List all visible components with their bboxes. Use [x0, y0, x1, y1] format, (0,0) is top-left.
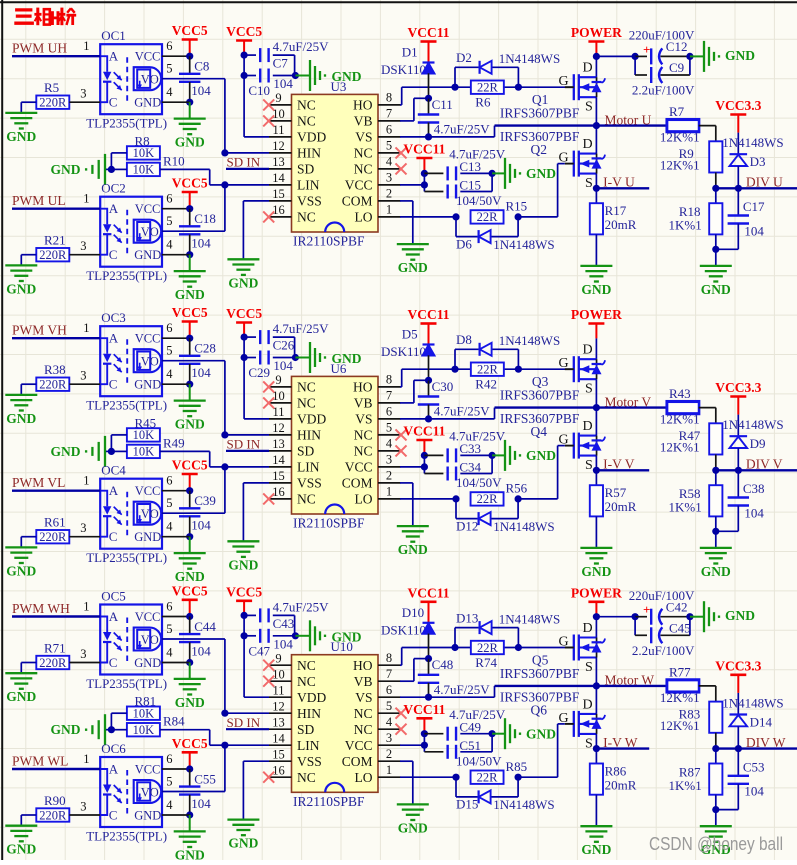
- svg-text:14: 14: [272, 731, 285, 745]
- svg-text:R17: R17: [605, 203, 627, 218]
- svg-text:104: 104: [744, 784, 764, 799]
- svg-text:4: 4: [386, 437, 393, 451]
- svg-text:POWER: POWER: [571, 25, 622, 40]
- svg-text:GND: GND: [526, 166, 556, 181]
- svg-text:13: 13: [272, 715, 285, 729]
- svg-text:GND: GND: [6, 281, 36, 296]
- svg-text:VCC11: VCC11: [403, 702, 445, 717]
- svg-text:1N4148WS: 1N4148WS: [722, 135, 783, 150]
- svg-text:4.7uF/25V: 4.7uF/25V: [434, 682, 491, 697]
- svg-text:R45: R45: [135, 415, 157, 430]
- svg-text:4: 4: [166, 798, 173, 812]
- svg-text:VO: VO: [141, 507, 159, 521]
- svg-text:GND: GND: [6, 411, 36, 426]
- svg-text:6: 6: [166, 752, 172, 766]
- svg-text:2.2uF/100V: 2.2uF/100V: [632, 643, 695, 658]
- svg-text:C43: C43: [273, 616, 295, 631]
- svg-text:VCC5: VCC5: [226, 306, 262, 321]
- svg-text:OC3: OC3: [101, 310, 126, 325]
- svg-text:LO: LO: [355, 492, 373, 507]
- svg-text:4: 4: [166, 85, 173, 99]
- svg-text:20mR: 20mR: [605, 777, 637, 792]
- svg-text:NC: NC: [297, 674, 316, 689]
- svg-text:12: 12: [272, 699, 285, 713]
- svg-text:10K: 10K: [133, 723, 155, 737]
- svg-text:6: 6: [166, 192, 172, 206]
- svg-text:10K: 10K: [133, 445, 155, 459]
- svg-text:D: D: [583, 343, 593, 358]
- svg-text:12K%1: 12K%1: [660, 440, 700, 455]
- svg-text:VO: VO: [141, 225, 159, 239]
- svg-text:HO: HO: [353, 380, 373, 395]
- svg-text:22R: 22R: [477, 492, 499, 506]
- svg-text:NC: NC: [297, 658, 316, 673]
- svg-text:D: D: [583, 61, 593, 76]
- svg-text:VCC: VCC: [135, 484, 161, 498]
- svg-text:GND: GND: [398, 260, 428, 275]
- svg-text:I-V V: I-V V: [603, 457, 635, 472]
- svg-text:D: D: [583, 621, 593, 636]
- svg-text:VCC: VCC: [345, 178, 373, 193]
- svg-text:G: G: [559, 356, 569, 371]
- svg-text:VO: VO: [141, 73, 159, 87]
- svg-text:Motor W: Motor W: [605, 673, 655, 688]
- svg-text:SD: SD: [297, 162, 315, 177]
- svg-text:R81: R81: [135, 694, 157, 709]
- svg-text:R77: R77: [669, 664, 691, 679]
- svg-text:5: 5: [386, 699, 392, 713]
- svg-text:1: 1: [386, 203, 392, 217]
- svg-text:C12: C12: [666, 39, 688, 54]
- svg-text:NC: NC: [354, 722, 373, 737]
- svg-text:VSS: VSS: [297, 754, 322, 769]
- svg-text:VCC11: VCC11: [407, 307, 449, 322]
- svg-text:R6: R6: [475, 95, 491, 110]
- svg-text:VCC5: VCC5: [172, 305, 208, 320]
- svg-text:6: 6: [166, 474, 172, 488]
- svg-text:GND: GND: [51, 722, 81, 737]
- svg-text:C: C: [109, 377, 118, 392]
- svg-text:C: C: [109, 529, 118, 544]
- svg-text:VS: VS: [355, 412, 372, 427]
- svg-text:VB: VB: [354, 114, 373, 129]
- svg-text:104: 104: [191, 365, 211, 380]
- svg-text:7: 7: [386, 107, 392, 121]
- svg-text:VCC5: VCC5: [226, 584, 262, 599]
- svg-text:6: 6: [386, 683, 392, 697]
- svg-text:4.7uF/25V: 4.7uF/25V: [273, 39, 330, 54]
- svg-text:2: 2: [386, 747, 392, 761]
- svg-text:C: C: [109, 808, 118, 823]
- svg-text:C55: C55: [194, 771, 216, 786]
- svg-text:1: 1: [83, 321, 89, 335]
- svg-text:4: 4: [166, 367, 173, 381]
- svg-text:GND: GND: [134, 808, 161, 822]
- svg-text:220R: 220R: [39, 248, 67, 262]
- svg-text:12K%1: 12K%1: [660, 718, 700, 733]
- svg-text:IR2110SPBF: IR2110SPBF: [293, 794, 365, 809]
- svg-text:5: 5: [166, 775, 172, 789]
- svg-text:DSK110: DSK110: [381, 622, 426, 637]
- svg-text:HO: HO: [353, 658, 373, 673]
- svg-text:12K%1: 12K%1: [660, 412, 700, 427]
- svg-text:104: 104: [273, 358, 293, 373]
- svg-text:Q2: Q2: [531, 142, 548, 157]
- svg-text:14: 14: [272, 171, 285, 185]
- svg-text:PWM VH: PWM VH: [12, 323, 67, 338]
- svg-text:104/50V: 104/50V: [456, 475, 502, 490]
- svg-text:VB: VB: [354, 396, 373, 411]
- svg-text:NC: NC: [297, 210, 316, 225]
- svg-text:3: 3: [80, 800, 86, 814]
- svg-text:C15: C15: [459, 178, 481, 193]
- svg-text:D15: D15: [456, 797, 478, 812]
- svg-text:+: +: [643, 602, 650, 617]
- svg-text:C44: C44: [194, 619, 216, 634]
- svg-text:D: D: [583, 697, 593, 712]
- svg-text:COM: COM: [342, 476, 373, 491]
- svg-text:IRFS3607PBF: IRFS3607PBF: [500, 129, 580, 144]
- svg-text:C28: C28: [194, 341, 216, 356]
- svg-text:6: 6: [386, 123, 392, 137]
- svg-text:VCC5: VCC5: [226, 24, 262, 39]
- svg-text:LO: LO: [355, 770, 373, 785]
- svg-text:VCC3.3: VCC3.3: [715, 98, 761, 113]
- svg-text:5: 5: [386, 139, 392, 153]
- svg-text:VCC5: VCC5: [172, 23, 208, 38]
- svg-text:VDD: VDD: [297, 130, 326, 145]
- svg-text:NC: NC: [297, 98, 316, 113]
- svg-text:C39: C39: [194, 493, 216, 508]
- svg-text:GND: GND: [701, 282, 731, 297]
- svg-text:CSDN @honey ball: CSDN @honey ball: [649, 834, 783, 854]
- svg-text:20mR: 20mR: [605, 217, 637, 232]
- svg-text:1N4148WS: 1N4148WS: [499, 611, 560, 626]
- svg-text:220R: 220R: [39, 530, 67, 544]
- svg-text:A: A: [109, 201, 119, 216]
- svg-text:A: A: [109, 762, 119, 777]
- svg-text:IR2110SPBF: IR2110SPBF: [293, 516, 365, 531]
- svg-text:G: G: [559, 74, 569, 89]
- svg-text:GND: GND: [6, 842, 36, 857]
- svg-text:Q6: Q6: [531, 702, 548, 717]
- svg-text:4: 4: [386, 155, 393, 169]
- svg-text:DSK110: DSK110: [381, 62, 426, 77]
- svg-text:GND: GND: [228, 275, 258, 290]
- svg-text:+: +: [643, 42, 650, 57]
- svg-text:GND: GND: [398, 820, 428, 835]
- svg-text:IR2110SPBF: IR2110SPBF: [293, 234, 365, 249]
- svg-text:S: S: [585, 176, 593, 191]
- svg-text:104: 104: [744, 223, 764, 238]
- svg-text:20mR: 20mR: [605, 499, 637, 514]
- svg-text:13: 13: [272, 155, 285, 169]
- svg-text:220R: 220R: [39, 808, 67, 822]
- svg-text:Motor V: Motor V: [605, 394, 652, 409]
- svg-text:4: 4: [166, 520, 173, 534]
- svg-text:IRFS3607PBF: IRFS3607PBF: [500, 388, 580, 403]
- svg-text:C53: C53: [743, 759, 765, 774]
- svg-text:GND: GND: [175, 135, 205, 150]
- svg-text:VCC5: VCC5: [172, 736, 208, 751]
- svg-text:D6: D6: [456, 236, 472, 251]
- svg-text:OC6: OC6: [101, 741, 126, 756]
- svg-text:D10: D10: [402, 605, 424, 620]
- svg-text:SD IN: SD IN: [227, 437, 261, 452]
- svg-text:VCC11: VCC11: [403, 424, 445, 439]
- svg-text:C7: C7: [273, 56, 289, 71]
- svg-text:C33: C33: [459, 441, 481, 456]
- svg-text:POWER: POWER: [571, 307, 622, 322]
- svg-text:GND: GND: [134, 378, 161, 392]
- svg-text:D5: D5: [402, 327, 418, 342]
- svg-text:C42: C42: [666, 599, 688, 614]
- svg-text:C34: C34: [459, 460, 481, 475]
- svg-text:6: 6: [166, 321, 172, 335]
- svg-text:104: 104: [191, 643, 211, 658]
- svg-text:22R: 22R: [477, 81, 499, 95]
- svg-text:Motor U: Motor U: [605, 112, 652, 127]
- svg-text:A: A: [109, 609, 119, 624]
- svg-text:R8: R8: [135, 133, 150, 148]
- svg-text:NC: NC: [354, 146, 373, 161]
- svg-text:7: 7: [386, 389, 392, 403]
- svg-text:SD: SD: [297, 444, 315, 459]
- svg-text:GND: GND: [134, 248, 161, 262]
- svg-text:D3: D3: [750, 154, 766, 169]
- svg-text:TLP2355(TPL): TLP2355(TPL): [86, 398, 167, 413]
- svg-text:104: 104: [191, 796, 211, 811]
- svg-text:IRFS3607PBF: IRFS3607PBF: [500, 411, 580, 426]
- svg-text:4: 4: [386, 715, 393, 729]
- svg-text:PWM WH: PWM WH: [12, 601, 70, 616]
- svg-text:VCC5: VCC5: [172, 458, 208, 473]
- svg-text:PWM UL: PWM UL: [12, 193, 66, 208]
- svg-text:VCC3.3: VCC3.3: [715, 658, 761, 673]
- svg-text:R84: R84: [163, 714, 185, 729]
- svg-text:VCC: VCC: [135, 762, 161, 776]
- svg-text:OC1: OC1: [101, 28, 126, 43]
- svg-text:COM: COM: [342, 754, 373, 769]
- svg-text:3: 3: [80, 239, 86, 253]
- svg-text:1K%1: 1K%1: [669, 778, 702, 793]
- svg-text:VCC: VCC: [135, 610, 161, 624]
- svg-text:D8: D8: [456, 332, 472, 347]
- svg-text:3: 3: [80, 369, 86, 383]
- svg-text:S: S: [585, 660, 593, 675]
- svg-text:TLP2355(TPL): TLP2355(TPL): [86, 829, 167, 844]
- svg-text:22R: 22R: [477, 641, 499, 655]
- svg-text:GND: GND: [134, 530, 161, 544]
- svg-text:1: 1: [83, 192, 89, 206]
- svg-text:LIN: LIN: [297, 738, 320, 753]
- svg-text:R57: R57: [605, 485, 627, 500]
- svg-text:R43: R43: [669, 386, 691, 401]
- svg-text:R42: R42: [475, 377, 497, 392]
- svg-text:1N4148WS: 1N4148WS: [722, 417, 783, 432]
- svg-text:C38: C38: [743, 481, 765, 496]
- svg-text:4.7uF/25V: 4.7uF/25V: [434, 404, 491, 419]
- svg-text:R85: R85: [506, 759, 528, 774]
- svg-text:1N4148WS: 1N4148WS: [493, 519, 554, 534]
- svg-text:D12: D12: [456, 518, 478, 533]
- svg-text:S: S: [585, 382, 593, 397]
- svg-text:1: 1: [83, 474, 89, 488]
- svg-text:6: 6: [166, 39, 172, 53]
- svg-text:9: 9: [275, 651, 281, 665]
- svg-text:D: D: [583, 137, 593, 152]
- svg-text:S: S: [585, 736, 593, 751]
- svg-text:R90: R90: [44, 793, 66, 808]
- svg-text:OC2: OC2: [101, 181, 126, 196]
- svg-text:1N4148WS: 1N4148WS: [499, 333, 560, 348]
- svg-text:HIN: HIN: [297, 706, 321, 721]
- svg-text:NC: NC: [297, 492, 316, 507]
- svg-text:DIV V: DIV V: [746, 457, 783, 472]
- svg-text:GND: GND: [228, 557, 258, 572]
- svg-text:4.7uF/25V: 4.7uF/25V: [273, 599, 330, 614]
- svg-text:14: 14: [272, 453, 285, 467]
- svg-text:1K%1: 1K%1: [669, 500, 702, 515]
- svg-text:220R: 220R: [39, 96, 67, 110]
- svg-text:104: 104: [744, 505, 764, 520]
- svg-text:4: 4: [166, 646, 173, 660]
- svg-text:NC: NC: [297, 114, 316, 129]
- svg-text:1K%1: 1K%1: [669, 218, 702, 233]
- svg-text:1: 1: [83, 39, 89, 53]
- svg-text:D14: D14: [750, 714, 773, 729]
- svg-text:VCC: VCC: [135, 50, 161, 64]
- svg-text:GND: GND: [725, 48, 755, 63]
- svg-text:VCC11: VCC11: [403, 142, 445, 157]
- svg-text:6: 6: [386, 405, 392, 419]
- svg-text:104/50V: 104/50V: [456, 753, 502, 768]
- svg-text:GND: GND: [6, 689, 36, 704]
- svg-text:OC4: OC4: [101, 463, 126, 478]
- svg-text:NC: NC: [297, 396, 316, 411]
- svg-text:VO: VO: [141, 633, 159, 647]
- svg-text:GND: GND: [581, 282, 611, 297]
- svg-text:8: 8: [386, 651, 392, 665]
- svg-text:VB: VB: [354, 674, 373, 689]
- svg-text:1N4148WS: 1N4148WS: [722, 695, 783, 710]
- svg-text:12: 12: [272, 139, 285, 153]
- svg-text:220R: 220R: [39, 378, 67, 392]
- svg-text:GND: GND: [175, 569, 205, 584]
- svg-text:R56: R56: [506, 481, 528, 496]
- svg-text:TLP2355(TPL): TLP2355(TPL): [86, 676, 167, 691]
- svg-text:12: 12: [272, 421, 285, 435]
- svg-text:3: 3: [80, 647, 86, 661]
- svg-text:3: 3: [386, 171, 392, 185]
- svg-text:104/50V: 104/50V: [456, 193, 502, 208]
- svg-text:3: 3: [386, 731, 392, 745]
- svg-text:VO: VO: [141, 355, 159, 369]
- svg-text:1: 1: [386, 485, 392, 499]
- svg-text:104: 104: [273, 76, 293, 91]
- svg-text:VSS: VSS: [297, 194, 322, 209]
- svg-text:GND: GND: [51, 444, 81, 459]
- svg-text:VO: VO: [141, 786, 159, 800]
- svg-text:C45: C45: [669, 620, 691, 635]
- svg-text:13: 13: [272, 437, 285, 451]
- svg-text:VDD: VDD: [297, 412, 326, 427]
- svg-text:GND: GND: [725, 608, 755, 623]
- svg-text:R86: R86: [605, 763, 627, 778]
- svg-text:15: 15: [272, 187, 285, 201]
- svg-text:D: D: [583, 419, 593, 434]
- svg-text:104: 104: [191, 518, 211, 533]
- svg-text:2: 2: [386, 187, 392, 201]
- svg-text:C47: C47: [248, 643, 270, 658]
- svg-text:GND: GND: [228, 836, 258, 851]
- svg-text:D1: D1: [402, 45, 418, 60]
- svg-text:VSS: VSS: [297, 476, 322, 491]
- svg-text:GND: GND: [175, 417, 205, 432]
- svg-text:TLP2355(TPL): TLP2355(TPL): [86, 550, 167, 565]
- svg-text:C51: C51: [459, 738, 481, 753]
- svg-text:C30: C30: [432, 379, 454, 394]
- svg-text:U3: U3: [331, 79, 347, 94]
- svg-text:C: C: [109, 95, 118, 110]
- svg-text:C13: C13: [459, 159, 481, 174]
- svg-text:12K%1: 12K%1: [660, 158, 700, 173]
- svg-text:POWER: POWER: [571, 585, 622, 600]
- svg-text:D2: D2: [456, 50, 472, 65]
- svg-text:A: A: [109, 331, 119, 346]
- svg-text:22R: 22R: [477, 771, 499, 785]
- svg-text:3: 3: [80, 521, 86, 535]
- svg-text:VCC: VCC: [345, 460, 373, 475]
- svg-text:2.2uF/100V: 2.2uF/100V: [632, 83, 695, 98]
- svg-text:5: 5: [166, 496, 172, 510]
- svg-text:NC: NC: [297, 770, 316, 785]
- svg-text:VCC11: VCC11: [407, 585, 449, 600]
- svg-text:C18: C18: [194, 211, 216, 226]
- svg-text:GND: GND: [526, 726, 556, 741]
- svg-text:GND: GND: [6, 129, 36, 144]
- svg-text:VCC5: VCC5: [172, 176, 208, 191]
- svg-text:5: 5: [166, 344, 172, 358]
- svg-text:12K%1: 12K%1: [660, 130, 700, 145]
- svg-text:GND: GND: [175, 695, 205, 710]
- svg-text:GND: GND: [581, 842, 611, 857]
- svg-text:C9: C9: [669, 60, 684, 75]
- svg-text:GND: GND: [526, 448, 556, 463]
- svg-text:U10: U10: [331, 639, 353, 654]
- svg-text:C26: C26: [273, 338, 295, 353]
- svg-text:C49: C49: [459, 719, 481, 734]
- svg-text:R74: R74: [475, 655, 497, 670]
- svg-text:PWM UH: PWM UH: [12, 41, 67, 56]
- svg-text:7: 7: [386, 667, 392, 681]
- svg-text:R10: R10: [163, 153, 185, 168]
- svg-text:C17: C17: [743, 199, 765, 214]
- svg-text:I-V U: I-V U: [603, 175, 635, 190]
- svg-text:VCC: VCC: [135, 202, 161, 216]
- svg-text:A: A: [109, 49, 119, 64]
- svg-text:22R: 22R: [477, 210, 499, 224]
- svg-text:16: 16: [272, 203, 285, 217]
- svg-text:NC: NC: [354, 444, 373, 459]
- svg-text:8: 8: [386, 373, 392, 387]
- svg-text:4.7uF/25V: 4.7uF/25V: [434, 122, 491, 137]
- svg-text:15: 15: [272, 469, 285, 483]
- svg-text:R71: R71: [44, 641, 66, 656]
- svg-text:D9: D9: [750, 436, 766, 451]
- svg-text:U6: U6: [331, 361, 347, 376]
- svg-text:S: S: [585, 458, 593, 473]
